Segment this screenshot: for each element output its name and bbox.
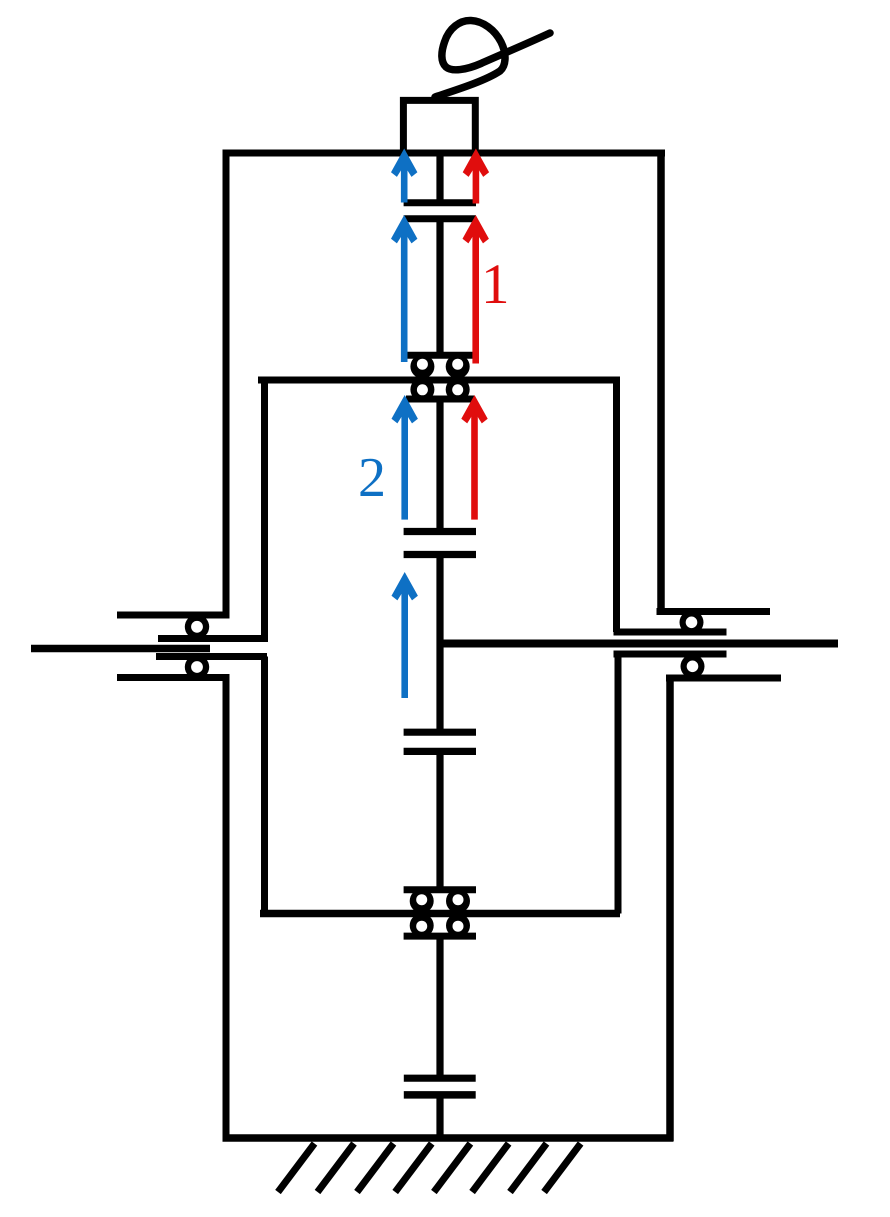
upper double bearing: bottom bar xyxy=(406,396,474,403)
right gimbal bearing: lower outer line D' xyxy=(666,675,781,682)
central shaft segment: lower bearing to coupling 3 xyxy=(436,936,443,1078)
upper double bearing: top bar xyxy=(407,352,473,359)
lower double bearing: top bar xyxy=(404,886,476,893)
red flow arrow pair-1 (short, above clutch) xyxy=(463,149,489,204)
clutch bar 2 xyxy=(404,215,476,222)
ground hatching under base xyxy=(278,1144,581,1193)
outer frame bottom line xyxy=(223,1134,674,1142)
coupling 2 bottom plate xyxy=(404,748,476,755)
coupling 3 bottom plate xyxy=(404,1091,476,1099)
left gimbal bearing: lower inner line C xyxy=(156,653,267,660)
lower double bearing: roller holes xyxy=(416,894,427,905)
outer frame right edge upper segment xyxy=(657,150,665,612)
central shaft segment: upper bearing to coupling 1 xyxy=(436,399,443,532)
blue flow arrow pair-3 (below upper bearing) with label 2 xyxy=(392,395,418,520)
svg-text:1: 1 xyxy=(481,253,510,316)
inner frame right edge upper segment xyxy=(613,377,620,633)
blue flow arrow single (middle, shaft 2) xyxy=(392,572,418,698)
coupling 1 top plate xyxy=(404,528,476,535)
red flow arrow pair-2 (long, shaft 1) with label 1 xyxy=(463,215,489,364)
left gimbal bearing: lower ball xyxy=(185,655,209,679)
upper double bearing: roller holes xyxy=(417,359,428,370)
upper double bearing: upper left roller xyxy=(410,355,434,379)
lower double bearing: upper left roller xyxy=(410,889,434,913)
right gimbal bearing: upper outer line A' xyxy=(657,608,771,615)
svg-text:2: 2 xyxy=(358,447,386,509)
left gimbal bearing: upper inner line B xyxy=(158,635,268,642)
outer frame right edge lower segment xyxy=(666,678,674,1141)
outer frame left edge lower segment xyxy=(223,678,230,1142)
upper double bearing: lower left roller xyxy=(410,378,434,402)
central shaft segment: coupling 1 to coupling 2 xyxy=(436,555,443,733)
right gimbal bearing: lower inner line C' xyxy=(614,651,727,658)
left gimbal bearing: lower outer line D xyxy=(117,674,230,681)
central shaft segment: frame top to clutch bar 1 xyxy=(436,153,443,203)
right gimbal bearing: upper ball xyxy=(680,610,704,634)
outer frame left edge upper segment xyxy=(223,150,230,616)
lower double bearing: upper right roller xyxy=(446,889,470,913)
clutch bar 1 xyxy=(404,199,476,206)
inner frame bottom line xyxy=(260,910,620,918)
central shaft segment: coupling 2 to lower bearing xyxy=(436,751,443,889)
outer frame top line xyxy=(223,150,666,157)
top block (rotor housing box) xyxy=(403,100,475,156)
coupling 3 top plate xyxy=(404,1075,476,1082)
inner frame right edge lower segment xyxy=(615,654,622,914)
blue flow arrow pair-1 (short, above clutch) xyxy=(391,149,417,203)
left gimbal bearing: upper outer line A xyxy=(117,612,230,619)
lower double bearing: bottom bar xyxy=(404,933,476,940)
blue flow arrow pair-2 (long, shaft 1) xyxy=(391,215,417,362)
upper double bearing: upper right roller xyxy=(446,355,470,379)
central shaft segment: coupling 3 to base xyxy=(436,1095,443,1138)
right gimbal bearing: lower ball xyxy=(681,654,705,678)
coupling 1 bottom plate xyxy=(404,551,476,558)
red flow arrow pair-3 (below upper bearing) xyxy=(461,395,487,520)
lower double bearing: lower right roller xyxy=(446,914,470,938)
inner frame left edge upper segment xyxy=(261,377,268,639)
right gimbal bearing: upper inner line B' xyxy=(614,629,727,636)
left gimbal axle xyxy=(31,645,210,653)
upper double bearing: lower right roller xyxy=(446,378,470,402)
lower double bearing: lower left roller xyxy=(410,914,434,938)
central shaft segment: clutch bar 2 to upper bearing xyxy=(436,219,443,355)
inner frame left edge lower segment xyxy=(261,657,268,914)
input squiggle (hand-drawn curl on top shaft) xyxy=(435,20,550,97)
left gimbal bearing: upper ball xyxy=(185,615,209,639)
right gimbal axle xyxy=(437,640,838,648)
coupling 2 top plate xyxy=(404,729,476,736)
inner frame top line xyxy=(258,377,618,384)
